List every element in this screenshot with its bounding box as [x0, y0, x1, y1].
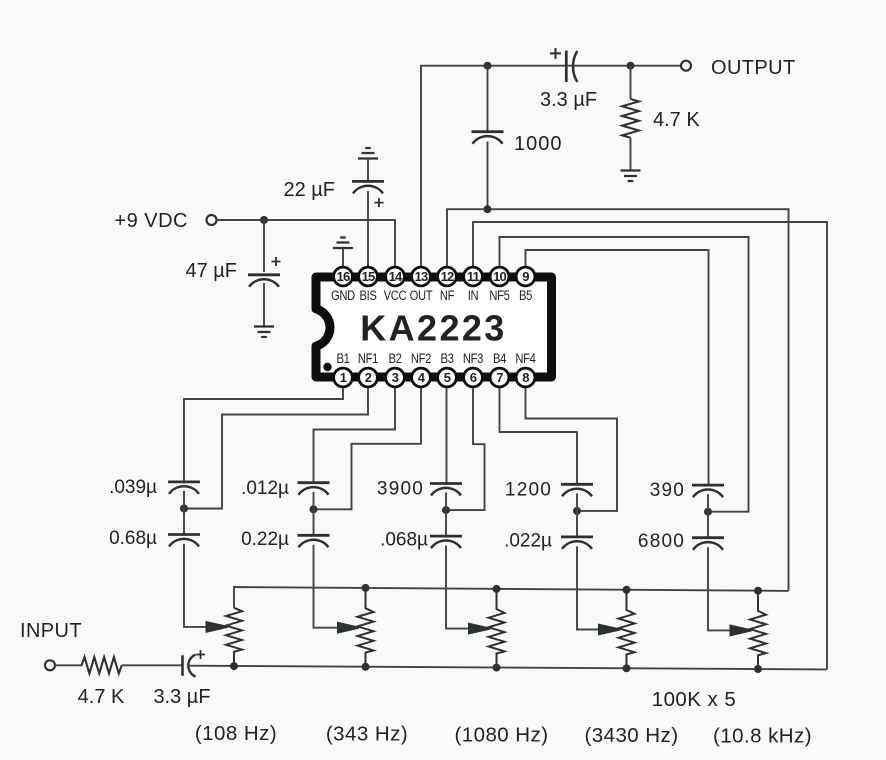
svg-text:3900: 3900	[377, 479, 424, 500]
pin 15	[359, 267, 378, 286]
junction OUT/4.7K	[627, 62, 635, 70]
wire C7-A4-C8	[576, 493, 578, 537]
capacitor C5 3900	[377, 479, 462, 500]
capacitor 47uF	[185, 257, 280, 287]
svg-text:13: 13	[415, 269, 428, 284]
wire pin16 to ground	[342, 248, 344, 266]
svg-text:14: 14	[389, 269, 403, 284]
svg-text:5: 5	[444, 370, 451, 385]
pin 14	[386, 267, 405, 286]
svg-text:1200: 1200	[505, 479, 552, 500]
svg-text:B1: B1	[336, 351, 349, 366]
wire C6 to wiper VR3	[446, 546, 470, 629]
wire C4 to wiper VR2	[314, 545, 340, 628]
svg-text:3.3 µF: 3.3 µF	[153, 686, 210, 708]
svg-text:.012µ: .012µ	[241, 478, 289, 499]
potentiometer VR3	[489, 585, 505, 668]
ground below 47uF	[254, 327, 274, 338]
wire OUT pin13 up and across to output	[421, 66, 681, 266]
svg-text:15: 15	[362, 269, 375, 284]
svg-text:NF: NF	[440, 288, 455, 303]
pin 8	[516, 368, 535, 387]
wire NF3 pin6 to node A3	[449, 388, 485, 510]
op-amp U1 KA2223 body	[316, 277, 552, 377]
pin 1	[334, 368, 353, 387]
svg-text:6: 6	[470, 370, 477, 385]
pin 10	[490, 267, 509, 286]
node A5 junction	[704, 508, 712, 516]
svg-text:(108 Hz): (108 Hz)	[195, 722, 277, 745]
junction OUT/1000	[484, 62, 492, 70]
svg-text:(10.8 kHz): (10.8 kHz)	[713, 725, 812, 748]
wire +9VDC to VCC pin 14	[217, 220, 396, 266]
svg-text:1: 1	[340, 370, 347, 385]
capacitor C11 3.3uF input	[153, 650, 210, 708]
wire IN pin11 feedback	[473, 222, 827, 669]
svg-text:10: 10	[493, 269, 506, 284]
svg-text:3.3 µF: 3.3 µF	[540, 89, 597, 111]
wire 47uF top	[263, 220, 265, 272]
resistor R1 4.7K input	[78, 657, 125, 708]
svg-text:1000: 1000	[514, 133, 563, 155]
pin 3	[386, 368, 405, 387]
svg-text:100K x 5: 100K x 5	[652, 688, 737, 711]
wire C9-A5-C10	[707, 494, 709, 538]
svg-text:NF4: NF4	[515, 351, 535, 366]
wiper arrow VR2	[338, 623, 359, 633]
svg-text:BIS: BIS	[359, 288, 376, 303]
capacitor 3.3uF output coupling	[540, 48, 597, 111]
pin-1 index dot	[323, 363, 331, 371]
wire B1 pin1 to C1	[184, 388, 343, 482]
svg-text:OUT: OUT	[410, 288, 433, 303]
wire NF4 pin8 to node A4	[526, 388, 618, 511]
wire C8 to wiper VR4	[577, 546, 600, 629]
wire 4.7K top	[630, 66, 632, 99]
wire 1000 cap bottom to NF line	[487, 142, 489, 210]
svg-text:B2: B2	[388, 351, 401, 366]
svg-text:.068µ: .068µ	[380, 530, 428, 551]
svg-text:8: 8	[522, 370, 529, 385]
svg-text:0.68µ: 0.68µ	[109, 528, 157, 549]
node A2 junction	[310, 505, 318, 513]
svg-text:11: 11	[467, 269, 480, 284]
capacitor 22uF	[283, 179, 384, 207]
capacitor C9 390	[650, 480, 724, 501]
pin 13	[412, 267, 431, 286]
junction VR1 bottom	[230, 662, 238, 670]
wire C5-A3-C6	[445, 493, 447, 536]
svg-text:(343 Hz): (343 Hz)	[326, 723, 408, 746]
svg-text:.022µ: .022µ	[504, 530, 552, 551]
svg-text:NF1: NF1	[358, 351, 378, 366]
svg-text:47 µF: 47 µF	[185, 260, 237, 282]
capacitor C7 1200	[505, 479, 593, 500]
node A1 junction	[180, 505, 188, 513]
svg-text:16: 16	[337, 269, 350, 284]
svg-text:7: 7	[496, 370, 503, 385]
ground above pin 16	[333, 238, 353, 249]
capacitor C2 0.68u	[109, 528, 200, 549]
svg-text:IN: IN	[468, 288, 479, 303]
svg-text:4.7 K: 4.7 K	[653, 109, 700, 131]
svg-text:3: 3	[392, 370, 399, 385]
svg-text:0.22µ: 0.22µ	[241, 529, 289, 550]
svg-text:INPUT: INPUT	[20, 620, 82, 642]
wire input to R1	[55, 664, 83, 666]
svg-text:(1080 Hz): (1080 Hz)	[454, 723, 548, 746]
svg-text:12: 12	[441, 269, 454, 284]
capacitor C6 .068u	[380, 530, 462, 551]
capacitor 1000	[472, 132, 563, 155]
resistor 4.7K output	[622, 99, 700, 138]
pin 16	[334, 267, 353, 286]
wiper arrow VR3	[469, 624, 490, 634]
svg-text:NF2: NF2	[411, 351, 431, 366]
wire C1-A1-C2	[183, 491, 185, 535]
svg-text:390: 390	[650, 480, 685, 501]
wire C10 to wiper VR5	[708, 547, 732, 630]
wire 22uF top	[367, 159, 369, 182]
pin 6	[464, 368, 483, 387]
pin 12	[438, 267, 457, 286]
svg-text:NF5: NF5	[489, 288, 509, 303]
wire C3-A2-C4	[313, 492, 315, 536]
potentiometer VR2	[358, 584, 374, 667]
ground above 22uF	[358, 148, 378, 159]
svg-text:2: 2	[365, 370, 372, 385]
ground below 4.7K	[621, 171, 641, 182]
svg-text:B3: B3	[440, 351, 453, 366]
wire 1000 cap top	[487, 66, 489, 132]
svg-text:(3430 Hz): (3430 Hz)	[584, 724, 678, 747]
svg-text:4.7 K: 4.7 K	[78, 686, 125, 708]
svg-text:9: 9	[522, 269, 529, 284]
junction VR4 bottom	[623, 664, 631, 672]
wire NF5 pin10 feedback	[500, 237, 749, 512]
pin 9	[516, 267, 535, 286]
capacitor C4 0.22u	[241, 529, 329, 550]
node A4 junction	[573, 507, 581, 515]
junction VR2 bottom	[362, 663, 370, 671]
wiper arrow VR1	[207, 622, 228, 632]
terminal OUTPUT	[681, 61, 691, 71]
wire NF pin12 feedback	[447, 209, 789, 591]
capacitor C3 .012u	[241, 478, 329, 499]
wire input bus	[189, 666, 827, 670]
pin 11	[464, 267, 483, 286]
pin 4	[412, 368, 431, 387]
pin 2	[359, 368, 378, 387]
wire 47uF bottom	[263, 283, 265, 327]
capacitor C10 6800	[638, 531, 724, 552]
wire B3 pin5 to C5	[446, 388, 448, 484]
wire NF2 pin4 to node A2	[317, 388, 422, 509]
svg-text:B4: B4	[493, 351, 506, 366]
wire 22uF to BIS pin 15	[367, 191, 369, 266]
wire pot top bus	[234, 587, 789, 608]
junction VR5 bottom	[754, 665, 762, 673]
wiper arrow VR4	[599, 625, 620, 635]
potentiometer VR5	[750, 587, 766, 669]
svg-text:VCC: VCC	[384, 288, 407, 303]
svg-text:B5: B5	[519, 288, 532, 303]
wire NF1 pin2 to node A1	[187, 388, 368, 509]
svg-text:GND: GND	[331, 288, 355, 303]
junction VR3 bottom	[493, 664, 501, 672]
svg-text:KA2223: KA2223	[360, 308, 506, 349]
capacitor C8 .022u	[504, 530, 593, 551]
junction NF/1000	[484, 205, 492, 213]
pin 7	[490, 368, 509, 387]
potentiometer VR1	[226, 608, 242, 666]
svg-text:NF3: NF3	[463, 351, 483, 366]
wire 4.7K bottom	[630, 138, 632, 171]
potentiometer VR4	[619, 586, 635, 669]
capacitor C1 .039u	[109, 477, 200, 498]
wiper arrow VR5	[731, 626, 752, 636]
svg-text:6800: 6800	[638, 531, 685, 552]
svg-text:.039µ: .039µ	[109, 477, 157, 498]
wire C2 to wiper VR1	[184, 544, 208, 627]
svg-text:+9 VDC: +9 VDC	[114, 210, 188, 232]
wire B2 pin3 to C3	[314, 388, 396, 483]
wire R1 to C11	[122, 664, 183, 666]
junction +9VDC/47uF	[260, 216, 268, 224]
node A3 junction	[442, 506, 450, 514]
svg-text:22 µF: 22 µF	[283, 179, 335, 201]
pin 5	[438, 368, 457, 387]
terminal INPUT	[45, 660, 55, 670]
wire B4 pin7 to C7	[500, 388, 578, 484]
terminal +9VDC	[207, 215, 217, 225]
wire B5 pin9 feedback	[526, 250, 709, 485]
svg-text:OUTPUT: OUTPUT	[711, 57, 796, 79]
